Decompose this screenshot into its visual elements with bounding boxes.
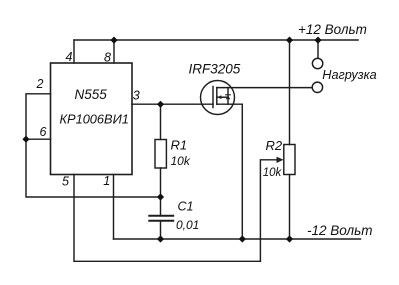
svg-text:+12 Вольт: +12 Вольт	[298, 22, 367, 37]
svg-text:5: 5	[62, 174, 69, 188]
svg-text:R2: R2	[266, 138, 283, 153]
svg-text:N555: N555	[75, 87, 108, 102]
svg-text:Нагрузка: Нагрузка	[322, 68, 376, 82]
svg-text:R1: R1	[171, 138, 188, 153]
svg-text:10k: 10k	[263, 167, 283, 179]
svg-text:КР1006ВИ1: КР1006ВИ1	[60, 111, 129, 126]
svg-text:8: 8	[104, 50, 111, 64]
svg-text:6: 6	[40, 125, 47, 139]
svg-text:10k: 10k	[171, 154, 191, 168]
svg-text:4: 4	[66, 50, 73, 64]
svg-text:0,01: 0,01	[176, 218, 199, 232]
svg-text:3: 3	[133, 89, 140, 103]
svg-text:C1: C1	[178, 200, 194, 214]
svg-text:-12 Вольт: -12 Вольт	[307, 223, 372, 238]
svg-text:IRF3205: IRF3205	[189, 62, 241, 77]
svg-text:1: 1	[103, 174, 110, 188]
svg-text:2: 2	[36, 77, 44, 91]
